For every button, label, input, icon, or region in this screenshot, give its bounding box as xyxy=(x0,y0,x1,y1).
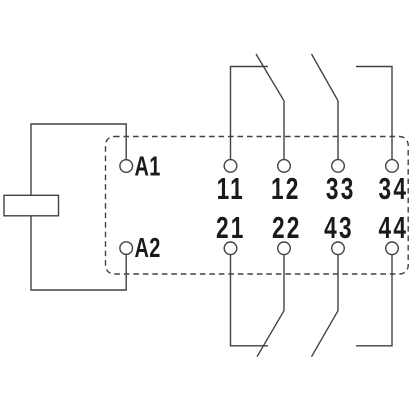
wire 44 fixed contact xyxy=(356,255,392,346)
terminal 33 xyxy=(332,160,345,173)
relay coil xyxy=(4,195,59,216)
terminal 11 xyxy=(224,160,237,173)
NO contact blade 33 xyxy=(312,54,339,101)
svg-text:A1: A1 xyxy=(135,151,161,182)
terminal A1 xyxy=(120,160,133,173)
terminal 43 xyxy=(332,242,345,255)
wire coil bottom: coil to A2 xyxy=(31,216,126,290)
svg-text:43: 43 xyxy=(324,211,354,245)
NO contact blade 43 xyxy=(312,311,339,357)
NC contact blade 21-22 xyxy=(257,311,284,357)
svg-text:12: 12 xyxy=(271,172,301,206)
wire coil top: coil to A1 xyxy=(31,124,126,195)
terminal A2 xyxy=(120,242,133,255)
wire 22 xyxy=(283,255,285,311)
terminal 22 xyxy=(278,242,291,255)
terminal 21 xyxy=(224,242,237,255)
wire 21 fixed contact xyxy=(231,255,269,346)
terminal 44 xyxy=(386,242,399,255)
NC contact blade 11-12 xyxy=(256,54,284,101)
wire 33 xyxy=(337,101,339,160)
svg-text:33: 33 xyxy=(326,172,356,206)
wire 12 xyxy=(283,101,285,160)
wire 43 xyxy=(337,255,339,311)
relay body outline (dashed) xyxy=(106,137,409,275)
wire 34 fixed contact xyxy=(356,67,392,160)
svg-text:44: 44 xyxy=(379,211,409,245)
svg-text:11: 11 xyxy=(217,172,245,206)
terminal 34 xyxy=(386,160,399,173)
svg-text:34: 34 xyxy=(379,172,409,206)
svg-text:21: 21 xyxy=(216,211,246,245)
svg-text:22: 22 xyxy=(272,211,302,245)
terminal 12 xyxy=(278,160,291,173)
svg-text:A2: A2 xyxy=(135,233,161,264)
wire 11 fixed contact xyxy=(231,67,269,160)
